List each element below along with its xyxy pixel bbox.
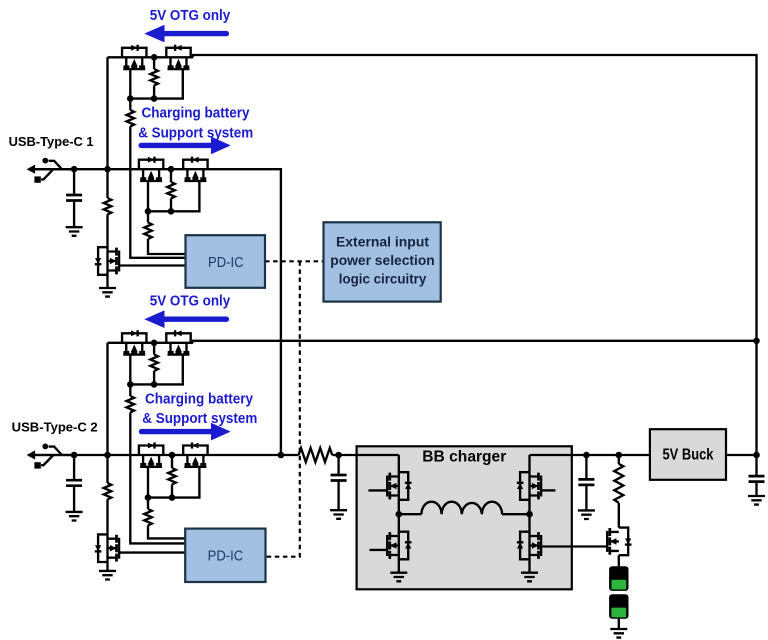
svg-text:Charging battery: Charging battery <box>142 105 250 121</box>
svg-text:& Support system: & Support system <box>138 125 253 141</box>
svg-text:logic circuitry: logic circuitry <box>339 271 427 286</box>
svg-text:& Support system: & Support system <box>142 411 257 427</box>
svg-text:5V OTG only: 5V OTG only <box>150 8 231 24</box>
svg-text:5V OTG only: 5V OTG only <box>150 294 231 310</box>
svg-text:5V Buck: 5V Buck <box>663 447 714 464</box>
svg-text:PD-IC: PD-IC <box>208 254 244 271</box>
svg-text:PD-IC: PD-IC <box>208 548 244 565</box>
svg-text:External input: External input <box>336 234 430 249</box>
svg-text:USB-Type-C 1: USB-Type-C 1 <box>9 134 94 149</box>
svg-text:USB-Type-C 2: USB-Type-C 2 <box>12 420 98 435</box>
svg-text:BB charger: BB charger <box>422 449 506 466</box>
svg-text:power selection: power selection <box>330 253 435 268</box>
svg-text:Charging battery: Charging battery <box>145 392 253 408</box>
